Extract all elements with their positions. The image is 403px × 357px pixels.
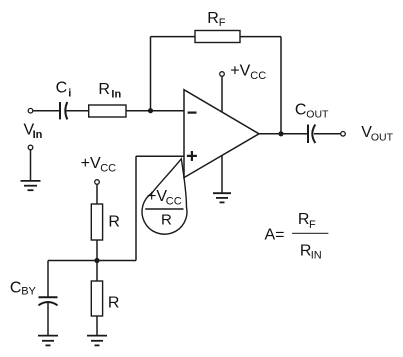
ground terminal below Vin [28,145,33,150]
wire vertical to divider node [135,156,137,260]
svg-text:A=: A= [265,227,285,244]
wire op-amp ground pin [221,155,223,193]
wire Cby to ground [47,303,49,335]
resistor R upper [91,204,102,240]
svg-text:F: F [219,17,226,29]
wire op-amp output [259,133,307,135]
op-amp U1 [184,90,259,178]
svg-text:In: In [33,129,43,141]
wire input terminal to Ci [33,110,59,112]
svg-text:OUT: OUT [306,109,329,121]
balloon fraction bar [145,208,183,210]
svg-text:+V: +V [81,155,101,172]
op-amp minus marker [188,111,197,113]
wire divider node horizontal [48,260,136,262]
svg-text:R: R [98,81,110,98]
resistor RF [195,31,240,43]
node divider junction [95,258,99,262]
svg-text:In: In [111,89,121,101]
wire non-inverting input [136,155,184,157]
wire lower R to ground [96,316,98,335]
svg-text:C: C [10,280,22,297]
svg-text:OUT: OUT [371,131,394,143]
node inverting input junction [148,109,152,113]
svg-text:R: R [108,213,120,230]
wire Vcc terminal to upper R [96,184,98,204]
supply terminal (+Vcc divider) [95,180,100,185]
input terminal (Vin) [28,108,33,113]
node output junction [279,132,283,136]
capacitor Ci [60,102,67,119]
formula fraction bar [292,232,328,234]
wire Rin to inverting input [126,110,184,112]
supply terminal (+Vcc op-amp) [220,72,225,77]
ground (op-amp) [213,193,231,202]
output terminal (Vout) [341,132,346,137]
svg-text:R: R [298,211,310,228]
svg-text:CC: CC [166,195,182,207]
wire node to lower R [96,261,98,282]
capacitor Cout [308,125,315,144]
svg-text:C: C [56,79,68,96]
svg-text:R: R [207,10,219,27]
wire feedback right vertical [280,37,282,134]
svg-text:+V: +V [147,188,167,205]
ground (lower R) [87,336,107,346]
ground (Cby) [38,336,58,346]
callout balloon [142,159,187,234]
wire Ci to Rin [66,110,89,112]
svg-text:CC: CC [100,163,116,175]
svg-text:IN: IN [311,250,322,262]
svg-text:+V: +V [230,63,250,80]
wire feedback left vertical [150,37,152,111]
wire upper R to node [96,240,98,261]
svg-text:C: C [295,101,307,118]
wire to input ground [30,150,32,181]
wire feedback top right [240,36,281,38]
svg-text:BY: BY [21,286,36,298]
wire Cout to output terminal [314,133,341,135]
svg-text:i: i [68,87,71,99]
capacitor Cby [39,297,58,305]
svg-text:R: R [161,212,172,229]
ground (input) [21,181,41,190]
wire node down to Cby [47,261,49,297]
resistor Rin [89,105,126,117]
svg-text:F: F [309,219,316,231]
wire feedback top left [151,36,196,38]
wire op-amp supply pin [221,76,223,112]
svg-text:CC: CC [250,70,266,82]
op-amp plus marker [187,151,197,161]
resistor R lower [91,281,102,316]
svg-text:R: R [108,294,120,311]
